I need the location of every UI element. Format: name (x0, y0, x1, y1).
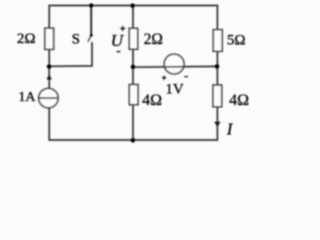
svg-text:4Ω: 4Ω (142, 92, 162, 109)
svg-text:U: U (111, 31, 125, 50)
svg-text:S: S (72, 32, 80, 48)
svg-text:2Ω: 2Ω (17, 31, 36, 47)
svg-text:1V: 1V (165, 81, 184, 97)
svg-text:5Ω: 5Ω (227, 33, 246, 49)
svg-text:4Ω: 4Ω (229, 92, 249, 109)
svg-text:1A: 1A (18, 90, 36, 105)
svg-text:2Ω: 2Ω (144, 31, 163, 48)
